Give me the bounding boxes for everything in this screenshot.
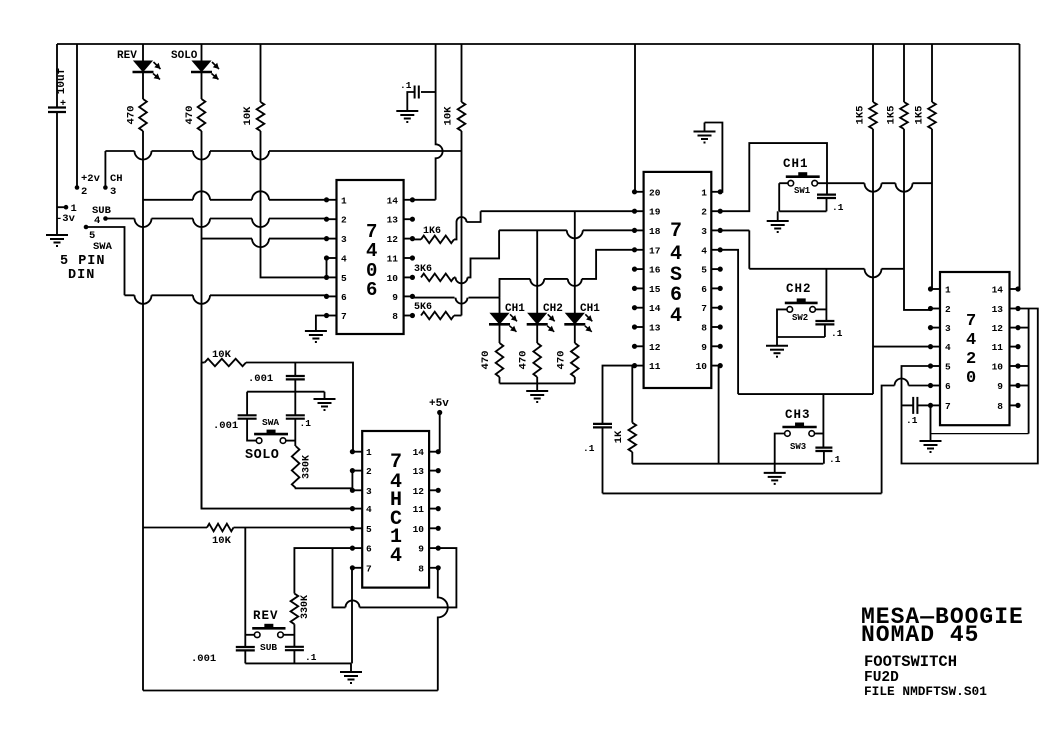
svg-text:3: 3 bbox=[366, 486, 372, 497]
wire C.001 rev stem bbox=[244, 650, 246, 663]
svg-text:SOLO: SOLO bbox=[171, 50, 198, 62]
wire SUB net to 7406 pin2 bbox=[106, 219, 327, 228]
wire R2 run bbox=[904, 129, 931, 310]
node DIN pin5 dot bbox=[84, 225, 89, 230]
wire 7420 pin7 gnd stem bbox=[930, 405, 932, 441]
wire rev sw drop bbox=[244, 528, 246, 648]
svg-text:470: 470 bbox=[126, 106, 138, 125]
wire REV anode bbox=[142, 44, 144, 61]
svg-text:3K6: 3K6 bbox=[414, 264, 432, 275]
resistor R-470 c bbox=[571, 343, 579, 377]
wire SW2 right vert bbox=[825, 269, 827, 321]
svg-text:10: 10 bbox=[413, 524, 425, 535]
svg-text:330K: 330K bbox=[300, 595, 311, 619]
ic 74HC14 box bbox=[362, 431, 429, 588]
svg-text:7: 7 bbox=[366, 563, 372, 574]
ground G-top cap bbox=[396, 111, 418, 122]
switch SW1 bbox=[786, 175, 820, 178]
svg-text:1: 1 bbox=[945, 285, 951, 296]
svg-text:SUB: SUB bbox=[260, 642, 277, 653]
svg-text:10uf: 10uf bbox=[56, 67, 68, 94]
svg-text:11: 11 bbox=[413, 504, 425, 515]
svg-text:1K5: 1K5 bbox=[914, 106, 926, 125]
wire 1K top lead bbox=[631, 366, 633, 423]
wire 74S64 pin10 drop bbox=[718, 366, 720, 464]
wire REV cathode to R bbox=[142, 72, 144, 100]
svg-text:12: 12 bbox=[387, 234, 399, 245]
svg-text:+5v: +5v bbox=[429, 398, 449, 410]
wire led b tail bbox=[536, 377, 538, 383]
svg-text:8: 8 bbox=[418, 563, 424, 574]
resistor R1 1K5 bbox=[869, 102, 877, 129]
wire led a tail bbox=[499, 377, 501, 383]
wire 74S64 pin3 drop to CH2 net bbox=[748, 230, 750, 268]
capacitor C-CH1 .1 bbox=[817, 195, 836, 198]
wire led ground stem bbox=[536, 383, 538, 391]
svg-text:6: 6 bbox=[366, 279, 377, 301]
ground G-leds bbox=[526, 391, 548, 402]
svg-text:.001: .001 bbox=[248, 373, 273, 385]
wire V461 top lead bbox=[461, 44, 463, 102]
svg-text:6: 6 bbox=[701, 284, 707, 295]
svg-text:9: 9 bbox=[418, 544, 424, 555]
svg-text:4: 4 bbox=[701, 245, 707, 256]
wire 330K-solo to pin3 bbox=[296, 487, 353, 490]
wire 10K-rev to pin5 bbox=[234, 527, 353, 529]
wire C.001 bottom stem bbox=[294, 379, 296, 391]
node DIN pin1 dot bbox=[64, 205, 69, 210]
capacitor C-.1 pin11 bbox=[593, 424, 612, 428]
svg-text:FOOTSWITCH: FOOTSWITCH bbox=[864, 653, 957, 671]
led CH1 left bbox=[491, 313, 509, 324]
svg-text:3: 3 bbox=[945, 323, 951, 334]
wire rev cell bottom bbox=[245, 662, 351, 664]
wire CH net horizontal bbox=[105, 151, 461, 160]
wire rev bottom long bbox=[143, 690, 438, 692]
svg-text:.1: .1 bbox=[300, 418, 312, 429]
svg-text:CH: CH bbox=[110, 173, 123, 185]
svg-text:2: 2 bbox=[945, 304, 951, 315]
wire pin8 riser with arc bbox=[438, 568, 448, 691]
wire 74S64 pin3 to CH2 net bbox=[720, 229, 749, 231]
wire 7420 pin14 from rail bbox=[1019, 44, 1021, 289]
svg-text:.001: .001 bbox=[213, 420, 238, 432]
svg-text:9: 9 bbox=[392, 292, 398, 303]
wire CH1b led drop bbox=[574, 211, 576, 313]
capacitor C-.001 top bbox=[286, 376, 305, 379]
svg-text:1K6: 1K6 bbox=[423, 226, 441, 237]
wire DIN pin1 to left rail bbox=[57, 206, 66, 208]
wire G-SW3 stem bbox=[774, 464, 776, 473]
wire 10K top lead bbox=[260, 44, 262, 102]
wire 10K-solo to pin1 bbox=[246, 363, 353, 452]
ground G-SW1 bbox=[767, 221, 789, 232]
svg-text:SW1: SW1 bbox=[794, 186, 811, 196]
resistor R-3K6 bbox=[421, 274, 454, 282]
wire 5K6 to V461 bbox=[454, 315, 462, 317]
led CH1 right bbox=[566, 313, 584, 324]
wire +2v drop bbox=[76, 44, 78, 188]
svg-text:.1: .1 bbox=[400, 80, 412, 91]
wire 74HC14 pin2-3 tie bbox=[351, 471, 353, 491]
wire G-SW2 stem bbox=[776, 337, 778, 346]
svg-text:7: 7 bbox=[945, 401, 951, 412]
svg-text:470: 470 bbox=[518, 351, 530, 370]
wire 74HC14 pin7 drop bbox=[351, 568, 353, 664]
svg-text:470: 470 bbox=[480, 351, 492, 370]
wire C7420 right lead bbox=[917, 404, 930, 406]
wire CH2 cell bottom bbox=[777, 336, 825, 338]
svg-text:NOMAD 45: NOMAD 45 bbox=[861, 622, 979, 648]
wire CH3 net horizontal bbox=[738, 393, 873, 395]
svg-text:20: 20 bbox=[649, 187, 661, 198]
svg-text:12: 12 bbox=[649, 342, 661, 353]
svg-text:7: 7 bbox=[341, 311, 347, 322]
resistor R-1K6 bbox=[421, 236, 454, 244]
wire SW1 to R3 net bbox=[818, 183, 933, 192]
node DIN pin2 dot bbox=[75, 185, 80, 190]
svg-text:2: 2 bbox=[341, 215, 347, 226]
svg-text:12: 12 bbox=[992, 323, 1004, 334]
resistor R-10K mid bbox=[458, 102, 466, 131]
ground G-rev bbox=[340, 672, 362, 683]
svg-text:3: 3 bbox=[341, 234, 347, 245]
capacitor C-.1 top plates bbox=[415, 86, 419, 99]
wire SW1 left drop bbox=[778, 183, 780, 211]
svg-text:REV: REV bbox=[117, 50, 137, 62]
svg-text:.1: .1 bbox=[831, 328, 843, 339]
switch SW2 bbox=[785, 302, 818, 305]
wire REV vertical run bbox=[142, 131, 144, 691]
svg-text:8: 8 bbox=[392, 311, 398, 322]
svg-text:REV: REV bbox=[253, 609, 279, 623]
wire SW3 right vert bbox=[822, 394, 824, 448]
svg-text:470: 470 bbox=[555, 351, 567, 370]
capacitor C-.1 7420 bbox=[913, 397, 917, 414]
resistor R-10K solo bbox=[205, 359, 246, 367]
wire C.1 rev stem bbox=[293, 650, 295, 663]
svg-text:11: 11 bbox=[649, 361, 661, 372]
svg-text:10K: 10K bbox=[443, 106, 455, 126]
wire right chain mid bbox=[294, 419, 296, 446]
svg-text:3: 3 bbox=[701, 226, 707, 237]
ic 74S64 box bbox=[644, 172, 712, 388]
svg-text:7: 7 bbox=[670, 220, 682, 243]
svg-text:SW2: SW2 bbox=[792, 313, 808, 323]
svg-text:7: 7 bbox=[966, 312, 976, 331]
svg-text:14: 14 bbox=[387, 195, 399, 206]
wire R3 top lead bbox=[931, 44, 933, 102]
svg-text:4: 4 bbox=[366, 240, 377, 262]
wire 7420 pin10 lead bbox=[1018, 365, 1029, 367]
wire 74S64 pin20 to rail bbox=[634, 44, 636, 192]
pins 7406 stubs and dots bbox=[327, 199, 337, 201]
svg-text:5: 5 bbox=[945, 362, 951, 373]
svg-text:+: + bbox=[60, 99, 66, 110]
wire R2 top lead bbox=[903, 44, 905, 102]
resistor R-470 a bbox=[496, 343, 504, 377]
resistor R3 1K5 bbox=[928, 102, 936, 129]
node +5v dot bbox=[437, 410, 442, 415]
wire CH2 net horizontal bbox=[749, 269, 904, 278]
svg-text:5 PIN: 5 PIN bbox=[60, 254, 106, 269]
svg-text:6: 6 bbox=[341, 292, 347, 303]
led SOLO bbox=[193, 61, 211, 72]
wire 7420 pin6 route bbox=[882, 379, 931, 494]
svg-text:19: 19 bbox=[649, 207, 661, 218]
wire left supply drop bbox=[56, 44, 58, 107]
wire 74S64 pin4 drop bbox=[720, 250, 738, 394]
capacitor C-CH3 .1 bbox=[815, 448, 832, 451]
svg-text:4: 4 bbox=[945, 342, 951, 353]
resistor R-330K rev bbox=[291, 594, 299, 625]
wire 7420 pin12 lead bbox=[1018, 327, 1029, 329]
svg-text:+2v: +2v bbox=[81, 173, 101, 185]
svg-text:4: 4 bbox=[94, 215, 100, 227]
node DIN pin4 dot bbox=[103, 216, 108, 221]
wire CH3 gnd net bbox=[632, 463, 823, 465]
wire cap to V435 bbox=[421, 91, 436, 93]
ground G-7420 bbox=[920, 441, 942, 452]
wire 7406 pin1 net bbox=[143, 191, 327, 200]
svg-text:5: 5 bbox=[701, 265, 707, 276]
wire 7406 pin3 net bbox=[202, 239, 327, 248]
resistor R2 1K5 bbox=[900, 102, 908, 129]
resistor R-5K6 bbox=[421, 312, 454, 320]
switch SW3 bbox=[782, 426, 816, 429]
svg-text:470: 470 bbox=[184, 106, 196, 125]
switch SWA bbox=[254, 433, 288, 436]
wire C-CH3 bottom lead bbox=[823, 451, 825, 464]
wire R1 run bbox=[872, 129, 874, 394]
svg-text:CH3: CH3 bbox=[785, 408, 811, 422]
wire 3K6 hop and jog bbox=[454, 230, 499, 283]
wire 74S64 pin11 left lead bbox=[603, 366, 635, 424]
svg-text:.1: .1 bbox=[829, 454, 841, 465]
wire CH1 cell bottom bbox=[779, 210, 826, 212]
svg-text:3: 3 bbox=[110, 186, 116, 198]
svg-text:15: 15 bbox=[649, 284, 661, 295]
wire SW2 left drop bbox=[777, 309, 787, 337]
wire C7420 left lead bbox=[902, 404, 914, 406]
capacitor C-.1 swa bbox=[286, 415, 305, 418]
wire led c cathode bbox=[574, 324, 576, 343]
wire left chain upper bbox=[246, 392, 248, 416]
wire 7420 pin5 route bbox=[902, 309, 1038, 464]
svg-text:CH1: CH1 bbox=[580, 303, 600, 315]
svg-text:CH2: CH2 bbox=[543, 303, 563, 315]
svg-text:1: 1 bbox=[701, 187, 707, 198]
svg-text:1K: 1K bbox=[613, 430, 625, 443]
svg-text:1: 1 bbox=[366, 447, 372, 458]
wire 10K-solo lead bbox=[202, 362, 205, 364]
wire SWA net to 7406 pin6 bbox=[125, 295, 327, 304]
wire rev sw right lead bbox=[283, 634, 294, 636]
wire 7420 pin4 net bbox=[873, 346, 931, 348]
wire G-SW1 stem bbox=[777, 211, 779, 221]
wire 7420 pin9 lead bbox=[1018, 385, 1029, 387]
wire 7420 right inner vert bbox=[1028, 309, 1030, 434]
svg-text:13: 13 bbox=[387, 215, 399, 226]
svg-text:13: 13 bbox=[992, 304, 1004, 315]
wire 1K6 lead bbox=[412, 238, 421, 240]
svg-text:8: 8 bbox=[997, 401, 1003, 412]
svg-text:DIN: DIN bbox=[68, 268, 95, 283]
wire rev gnd stem bbox=[350, 663, 352, 672]
wire 7406 pin4-pin5 tie bbox=[326, 258, 328, 277]
wire +5v lead bbox=[438, 451, 440, 453]
ground G-74S64 pin1 bbox=[704, 123, 706, 132]
svg-text:18: 18 bbox=[649, 226, 661, 237]
wire SW3 right lead bbox=[815, 433, 824, 435]
svg-text:16: 16 bbox=[649, 265, 661, 276]
svg-text:6: 6 bbox=[945, 381, 951, 392]
wire 7406 pin9 net bbox=[412, 298, 499, 304]
resistor R-1K bbox=[629, 423, 637, 452]
ground G-SW3 bbox=[764, 473, 786, 484]
svg-text:11: 11 bbox=[992, 342, 1004, 353]
wire R3 run bbox=[931, 129, 933, 289]
svg-text:12: 12 bbox=[413, 486, 425, 497]
wire +5v to pin14 bbox=[439, 413, 441, 452]
wire 10K-rev lead bbox=[143, 527, 207, 529]
pins 74S64 stubs and dots bbox=[635, 191, 644, 193]
svg-text:10: 10 bbox=[387, 273, 399, 284]
wire V461 run bbox=[461, 131, 463, 316]
wire R1 top lead bbox=[872, 44, 874, 102]
wire 74S64 pin2 to CH1 cell bbox=[720, 143, 827, 211]
wire SW1 left lead bbox=[779, 182, 788, 184]
svg-text:2: 2 bbox=[966, 350, 976, 369]
svg-text:6: 6 bbox=[366, 544, 372, 555]
svg-text:4: 4 bbox=[966, 331, 976, 350]
svg-text:.001: .001 bbox=[191, 653, 216, 665]
svg-text:10K: 10K bbox=[212, 349, 232, 361]
svg-text:4: 4 bbox=[390, 545, 402, 568]
svg-text:1: 1 bbox=[341, 195, 347, 206]
wire CH riser from DIN pin3 bbox=[104, 151, 106, 188]
svg-text:13: 13 bbox=[413, 466, 425, 477]
ic 7406 box bbox=[337, 180, 404, 334]
svg-text:SW3: SW3 bbox=[790, 442, 806, 452]
svg-text:FILE NMDFTSW.S01: FILE NMDFTSW.S01 bbox=[864, 684, 987, 699]
svg-text:CH2: CH2 bbox=[786, 282, 812, 296]
svg-text:2: 2 bbox=[81, 186, 87, 198]
svg-text:1K5: 1K5 bbox=[855, 106, 867, 125]
svg-text:5: 5 bbox=[341, 273, 347, 284]
resistor R-470 b bbox=[533, 343, 541, 377]
svg-text:6: 6 bbox=[670, 284, 682, 307]
ground G-7406 bbox=[305, 331, 327, 342]
svg-text:8: 8 bbox=[701, 323, 707, 334]
wire SOLO anode bbox=[201, 44, 203, 61]
capacitor C1 lower lead bbox=[56, 112, 58, 235]
wire 7406 pin14 lead bbox=[412, 199, 435, 201]
wire solo gnd rail bbox=[247, 391, 324, 393]
wire +V top rail bbox=[57, 43, 1020, 45]
wire 1K bottom lead bbox=[631, 452, 633, 464]
wire led b cathode bbox=[536, 324, 538, 343]
capacitor C1 +10uf plates bbox=[48, 108, 66, 113]
svg-text:1K5: 1K5 bbox=[886, 106, 898, 125]
svg-text:.1: .1 bbox=[583, 443, 595, 454]
svg-text:5: 5 bbox=[366, 524, 372, 535]
svg-text:2: 2 bbox=[366, 466, 372, 477]
svg-text:SWA: SWA bbox=[93, 241, 113, 253]
wire 7420 gnd tie bbox=[931, 433, 1029, 435]
wire 74S64 pin17 net bbox=[500, 250, 635, 298]
wire solo gnd stem bbox=[324, 392, 326, 399]
resistor R-REV 470 bbox=[139, 99, 147, 131]
wire SW3 left drop bbox=[775, 434, 785, 464]
svg-text:10: 10 bbox=[696, 361, 708, 372]
wire led c tail bbox=[574, 377, 576, 383]
switch SWB bbox=[252, 627, 285, 630]
svg-text:10K: 10K bbox=[242, 106, 254, 126]
wire 1K6 hop and jog to pin19 bbox=[454, 211, 481, 239]
wire SWA net right-down bbox=[86, 227, 125, 295]
wire SOLO cathode to R bbox=[201, 72, 203, 100]
ground G-solo bbox=[314, 399, 336, 410]
svg-text:14: 14 bbox=[413, 447, 425, 458]
wire 330K-rev top bbox=[294, 548, 352, 593]
resistor R-10K left bbox=[257, 102, 265, 131]
svg-text:330K: 330K bbox=[302, 455, 313, 479]
svg-text:.1: .1 bbox=[906, 415, 918, 426]
wire 10K vertical run bbox=[261, 131, 327, 277]
svg-text:14: 14 bbox=[992, 285, 1004, 296]
svg-text:0: 0 bbox=[966, 369, 976, 388]
wire C pin11 bottom lead bbox=[602, 427, 604, 493]
wire C-CH2 bottom lead bbox=[824, 324, 826, 337]
wire right chain upper bbox=[294, 392, 296, 416]
capacitor C-.1 rev bbox=[285, 647, 304, 650]
node DIN pin3 dot bbox=[103, 185, 108, 190]
wire 330K-rev bottom bbox=[293, 624, 295, 647]
wire V435 from rail bbox=[436, 44, 443, 200]
wire 74HC14 pin9 tie bbox=[333, 548, 457, 607]
svg-text:13: 13 bbox=[649, 323, 661, 334]
svg-text:SOLO: SOLO bbox=[245, 448, 279, 463]
wire 74S64 pin19 net bbox=[481, 210, 635, 212]
svg-text:7: 7 bbox=[701, 303, 707, 314]
svg-text:.1: .1 bbox=[305, 652, 317, 663]
wire SWA right lead bbox=[286, 440, 296, 442]
wire rev sw left lead bbox=[245, 634, 254, 636]
capacitor C-CH2 .1 bbox=[815, 321, 834, 324]
resistor R-SOLO 470 bbox=[198, 99, 206, 131]
svg-text:-3v: -3v bbox=[56, 213, 76, 225]
wire CH1a led drop bbox=[499, 298, 501, 314]
wire left chain lower bbox=[247, 419, 256, 441]
resistor R-10K rev bbox=[207, 524, 234, 532]
wire cap left lead bbox=[407, 92, 414, 111]
svg-text:5K6: 5K6 bbox=[414, 302, 432, 313]
wire C.001 top stem bbox=[294, 363, 296, 377]
wire 74S64 pin1 ground loop bbox=[705, 123, 723, 192]
resistor R-330K solo bbox=[292, 446, 300, 488]
svg-text:SWA: SWA bbox=[262, 417, 279, 428]
svg-text:10K: 10K bbox=[212, 535, 232, 547]
wire CH2 led drop bbox=[536, 230, 538, 313]
svg-text:4: 4 bbox=[670, 243, 682, 266]
svg-text:4: 4 bbox=[670, 305, 682, 328]
svg-text:.1: .1 bbox=[832, 202, 844, 213]
wire 7420 pin6 net bottom bbox=[603, 492, 882, 494]
wire SW2 right lead bbox=[815, 308, 826, 310]
svg-text:4: 4 bbox=[341, 254, 347, 265]
ground G1 below C1 bbox=[46, 235, 68, 246]
